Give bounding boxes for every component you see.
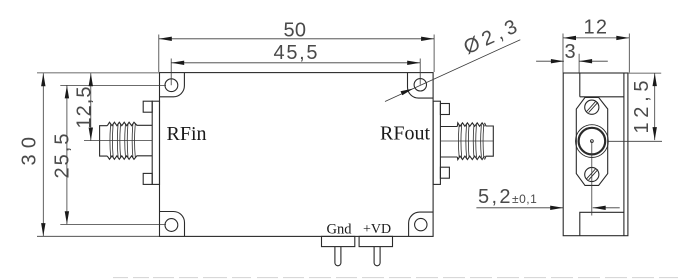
- arrow 12,5 left top: [89, 73, 93, 86]
- right SMA end cap: [485, 123, 494, 160]
- svg-text:±0,1: ±0,1: [512, 192, 537, 206]
- dim 25,5 line: [66, 85, 68, 224]
- left connector centerline: [84, 140, 152, 142]
- bottom-left hole: [165, 219, 178, 232]
- arrow 50 left: [159, 37, 172, 41]
- svg-text:Gnd: Gnd: [327, 221, 353, 237]
- dim 45,5 line: [171, 62, 420, 64]
- svg-text:+VD: +VD: [363, 222, 391, 237]
- dimension and extension lines: [37, 34, 662, 237]
- side view top screw slot: [587, 101, 598, 112]
- dim 50 ext lines: [159, 35, 434, 73]
- svg-text:50: 50: [284, 20, 308, 42]
- svg-text:45,5: 45,5: [274, 42, 319, 64]
- right SMA flange ear top: [440, 104, 449, 115]
- dim 3 ext line: [578, 54, 580, 73]
- arrow 25,5 bottom: [65, 211, 69, 224]
- dim 12,5 right line: [654, 73, 656, 140]
- side view center pin dot: [591, 140, 594, 143]
- hole center ext line top-left: [60, 84, 166, 86]
- side view outer body: [563, 73, 628, 236]
- front view body outline: [160, 73, 434, 237]
- dim 50 line: [159, 38, 434, 40]
- arrow 50 right: [421, 37, 434, 41]
- right SMA barrel plain section: [440, 127, 457, 158]
- arrow 45,5 left: [171, 61, 184, 65]
- side view inner right wall: [623, 73, 625, 236]
- top-left mounting tab: [160, 73, 185, 97]
- arrow 12 left: [563, 36, 576, 40]
- arrow 12 right: [616, 36, 629, 40]
- svg-text:12: 12: [584, 17, 609, 39]
- svg-text:30: 30: [19, 136, 41, 166]
- hole center ext line bottom-left: [60, 224, 166, 226]
- top-right hole: [414, 79, 426, 91]
- Gnd feedthrough block: [322, 236, 355, 246]
- dim 12 line (side): [563, 37, 629, 39]
- bottom-right hole: [415, 218, 427, 230]
- arrow dia 2,3: [401, 89, 414, 96]
- faint cropped text row at bottom: [113, 277, 678, 279]
- side view SMA flange octagon: [576, 97, 607, 185]
- dim 3 line (side): [536, 60, 608, 62]
- side view vertical centerline: [591, 141, 593, 215]
- side view connector nut bold ring: [579, 128, 606, 155]
- top-left hole: [165, 79, 178, 92]
- svg-text:25,5: 25,5: [52, 133, 74, 179]
- arrow 3 right outside: [579, 59, 592, 63]
- top-right mounting tab: [408, 73, 434, 99]
- svg-text:12,5: 12,5: [74, 86, 96, 129]
- arrow 25,5 top: [65, 85, 69, 98]
- right SMA threads top: [457, 123, 484, 127]
- side view top cavity: [580, 73, 624, 97]
- arrow 12,5 right bottom: [653, 127, 657, 140]
- svg-text:3: 3: [565, 41, 577, 63]
- left SMA end cap: [100, 126, 108, 156]
- dim 30 line: [42, 73, 44, 236]
- left SMA flange plate: [152, 101, 159, 184]
- arrow 5,2 right outside: [593, 206, 606, 210]
- dia 2,3 leader line: [385, 40, 520, 102]
- top edge ext line right: [628, 72, 661, 74]
- right SMA threads bottom: [457, 156, 484, 160]
- right SMA flange plate: [433, 101, 440, 184]
- svg-text:RFout: RFout: [380, 123, 430, 145]
- bottom-right mounting tab: [409, 212, 434, 236]
- side view bottom notch: [580, 212, 624, 235]
- bottom-left mounting tab: [160, 212, 185, 237]
- top edge ext line left: [37, 72, 159, 74]
- side view connector outer ring: [576, 125, 609, 158]
- left SMA thread roots: [110, 124, 135, 157]
- right connector centerline: [440, 140, 493, 142]
- arrow 12,5 right top: [653, 73, 657, 86]
- arrow 30 top: [41, 73, 45, 86]
- svg-text:Ø2,3: Ø2,3: [460, 15, 521, 59]
- left SMA flange ear bottom: [143, 173, 152, 184]
- arrow 45,5 right: [407, 61, 420, 65]
- svg-text:RFin: RFin: [167, 123, 207, 145]
- dim 45,5 ext lines: [171, 59, 420, 86]
- dim 12,5 left line: [90, 73, 92, 140]
- arrow 30 bottom: [41, 223, 45, 236]
- side view top screw: [585, 100, 599, 114]
- +VD pin: [374, 247, 380, 266]
- left SMA threads top: [107, 122, 137, 126]
- right SMA flange ear bottom: [440, 167, 449, 178]
- svg-text:5,2: 5,2: [478, 186, 512, 208]
- arrowheads: [41, 36, 657, 236]
- svg-text:12,5: 12,5: [631, 80, 653, 134]
- left SMA barrel plain section: [137, 125, 152, 156]
- dim 5,2 line: [476, 207, 619, 209]
- arrow 5,2 left outside: [550, 206, 563, 210]
- left SMA flange ear top: [143, 101, 152, 112]
- +VD feedthrough block: [359, 236, 392, 246]
- dim 12 ext lines: [563, 34, 629, 73]
- side view bottom screw: [585, 167, 599, 181]
- left SMA threads bottom: [107, 156, 137, 160]
- right SMA thread roots: [458, 125, 483, 158]
- arrow 3 left outside: [551, 59, 564, 63]
- connector center ext line right: [609, 140, 663, 142]
- arrow 12,5 left bottom: [89, 128, 93, 141]
- bottom edge ext line left: [37, 235, 159, 237]
- side view bottom screw slot: [587, 169, 598, 180]
- Gnd pin: [335, 247, 341, 266]
